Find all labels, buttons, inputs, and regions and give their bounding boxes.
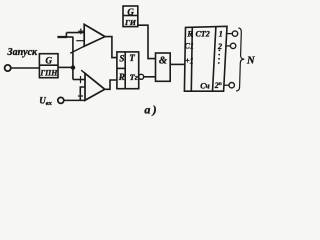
svg-text:Сч: Сч bbox=[200, 81, 210, 90]
svg-text:СТ2: СТ2 bbox=[195, 30, 209, 39]
svg-text:ГПН: ГПН bbox=[39, 69, 58, 78]
svg-text:ГИ: ГИ bbox=[124, 18, 137, 27]
svg-text:С1: С1 bbox=[185, 42, 194, 51]
svg-text:N: N bbox=[246, 55, 255, 66]
svg-text:а): а) bbox=[144, 102, 158, 116]
svg-text:G: G bbox=[127, 7, 134, 17]
svg-text:1: 1 bbox=[219, 30, 223, 39]
svg-text:&: & bbox=[159, 56, 168, 67]
svg-text:G: G bbox=[46, 56, 53, 66]
svg-text:+1: +1 bbox=[185, 57, 194, 66]
svg-text:T: T bbox=[129, 53, 135, 63]
svg-text:Запуск: Запуск bbox=[6, 47, 38, 58]
svg-text:R: R bbox=[186, 29, 193, 38]
svg-text:R: R bbox=[118, 72, 125, 82]
svg-text:S: S bbox=[119, 54, 124, 64]
svg-text:Тг: Тг bbox=[129, 72, 137, 82]
